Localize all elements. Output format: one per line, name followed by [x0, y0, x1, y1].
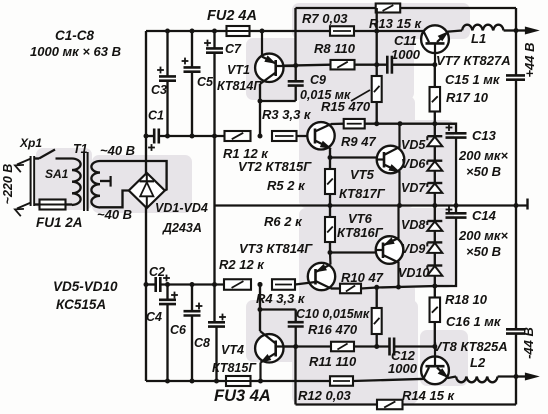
svg-text:VD6: VD6	[401, 157, 426, 171]
transistor VT4 KT815G	[255, 334, 283, 362]
svg-text:C1: C1	[148, 109, 164, 123]
svg-text:R8 110: R8 110	[314, 41, 356, 56]
svg-text:VD10: VD10	[398, 266, 429, 280]
svg-text:~40 В: ~40 В	[100, 143, 135, 158]
resistor R10	[340, 284, 361, 294]
transistor VT3 KT814G	[308, 263, 335, 290]
svg-text:VT1: VT1	[227, 63, 250, 77]
wire x214.5 mid section (0V tie)	[213, 136, 215, 322]
wire VT2 collector to R9	[331, 123, 344, 126]
svg-text:C10 0,015мк: C10 0,015мк	[296, 307, 370, 321]
svg-text:VD9: VD9	[401, 242, 425, 256]
fuse FU3	[226, 376, 251, 386]
wire raw+ rail y31	[146, 30, 227, 32]
wire raw- rail y381 center	[251, 380, 331, 382]
capacitor C5 vertical x192	[191, 31, 193, 67]
svg-text:R18 10: R18 10	[445, 292, 488, 307]
svg-text:C16 1 мк: C16 1 мк	[446, 314, 502, 329]
svg-text:L2: L2	[470, 355, 486, 370]
transformer T1 primary winding	[72, 159, 81, 205]
resistor R4	[272, 279, 295, 290]
svg-text:C13: C13	[472, 128, 497, 143]
svg-text:1000 мк × 63 В: 1000 мк × 63 В	[30, 44, 121, 59]
transistor VT6 KT816G	[376, 236, 404, 264]
transistor VT8 KT825A	[421, 356, 449, 384]
fuse FU1	[34, 203, 39, 205]
wire top rail y8	[296, 7, 377, 9]
svg-text:Xp1: Xp1	[19, 136, 42, 150]
svg-text:1000: 1000	[391, 47, 421, 62]
svg-text:C11: C11	[394, 33, 417, 48]
svg-text:×50 В: ×50 В	[466, 164, 501, 179]
zener VD8	[427, 220, 442, 222]
wire -44 vertical x516	[515, 206, 517, 330]
svg-text:Д243А: Д243А	[162, 221, 202, 235]
wire rail287	[361, 286, 435, 289]
node VT1 base	[293, 63, 298, 68]
transistor VT7 KT827A	[421, 25, 449, 53]
junction dots rail284.5	[144, 282, 149, 287]
wire x214.5 below C8	[215, 327, 217, 381]
arrow +44V output	[516, 29, 528, 31]
svg-text:VD5-VD10: VD5-VD10	[53, 279, 118, 294]
wire x295.5 from rail8 to VT1 base node	[294, 8, 296, 66]
zener VD7	[427, 182, 442, 184]
capacitor C1 (series plates on 0V rail)	[153, 129, 156, 144]
zener VD10	[427, 264, 442, 266]
svg-text:~40 В: ~40 В	[97, 207, 132, 222]
junction dots rail136	[144, 134, 149, 139]
svg-text:C8: C8	[194, 336, 210, 350]
svg-text:L1: L1	[471, 31, 486, 46]
svg-text:VT3 КТ814Г: VT3 КТ814Г	[239, 241, 313, 256]
svg-text:~220 В: ~220 В	[1, 164, 15, 205]
wire R13 left drop to node31	[376, 8, 378, 31]
resistor R12	[330, 376, 353, 386]
wire bridge+ vertical x146 top	[145, 31, 147, 174]
svg-text:T1: T1	[73, 142, 88, 156]
svg-text:R6 2 к: R6 2 к	[264, 214, 303, 229]
svg-text:C7: C7	[225, 42, 242, 56]
wire x376.7 top segments	[376, 31, 378, 76]
svg-text:VT5: VT5	[350, 167, 375, 182]
svg-text:C2: C2	[149, 265, 165, 279]
wire C12 to VT8 base node	[394, 345, 435, 347]
wire rail381 to VT8 collector	[353, 379, 426, 381]
svg-text:×50 В: ×50 В	[466, 244, 501, 259]
inductor L1	[462, 25, 504, 31]
svg-text:C9: C9	[310, 73, 326, 87]
svg-text:VT4: VT4	[221, 343, 244, 357]
svg-text:R17 10: R17 10	[446, 90, 489, 105]
resistor R8	[331, 60, 355, 69]
resistor R9	[344, 119, 365, 129]
capacitor C4 vertical x167.5 bottom	[166, 285, 168, 300]
svg-text:VD8: VD8	[401, 218, 425, 232]
svg-text:VT7 КТ827А: VT7 КТ827А	[436, 53, 511, 68]
wire zener chain x434.8 top	[434, 124, 436, 206]
svg-text:1000: 1000	[388, 361, 418, 376]
capacitor C7 vertical x214.5	[213, 31, 215, 48]
wire raw- rail y381 left	[146, 380, 226, 382]
capacitor C13 branch	[435, 124, 456, 134]
resistor R14	[377, 400, 403, 410]
wire node309.5 horizontal	[260, 308, 296, 310]
wire 0V rail y136	[159, 135, 225, 137]
svg-text:FU3 4A: FU3 4A	[214, 387, 271, 405]
wire VT1 collector drop x260	[259, 84, 261, 136]
wire C11 to VT7 base node	[392, 64, 435, 66]
resistor R13	[376, 4, 401, 13]
wire rail123.7	[365, 123, 456, 125]
wire node101 horizontal	[260, 100, 296, 102]
svg-text:R10 47: R10 47	[341, 270, 384, 285]
svg-text:FU2 4A: FU2 4A	[207, 8, 257, 24]
svg-text:R15 470: R15 470	[321, 99, 371, 114]
wire L2 to -44 node	[498, 375, 516, 377]
capacitor C14 branch	[455, 206, 457, 214]
svg-text:VD5: VD5	[401, 138, 426, 152]
wire R3 to VT2 base	[297, 135, 316, 137]
svg-text:КС515А: КС515А	[56, 297, 106, 312]
wire 0V rail y284.5	[160, 283, 224, 285]
capacitor C11 series plates	[386, 56, 389, 74]
svg-text:C5: C5	[197, 75, 214, 89]
svg-text:-44 В: -44 В	[521, 327, 536, 359]
svg-text:R3 3,3 к: R3 3,3 к	[262, 107, 312, 122]
svg-text:R16 470: R16 470	[308, 322, 358, 337]
shading patches	[292, 3, 470, 39]
svg-text:SA1: SA1	[45, 167, 69, 181]
svg-text:C14: C14	[472, 208, 497, 223]
svg-text:VD1-VD4: VD1-VD4	[155, 201, 208, 215]
plug Xp1	[30, 156, 32, 206]
junction dots mid rail	[328, 203, 333, 208]
zener VD5	[427, 135, 442, 137]
resistor R11	[331, 342, 354, 352]
svg-text:200 мк×: 200 мк×	[458, 228, 509, 243]
svg-text:C6: C6	[170, 323, 187, 337]
resistor R3	[272, 131, 297, 141]
wire VT4 collector drop x260	[259, 285, 261, 332]
svg-text:VT2 КТ815Г: VT2 КТ815Г	[238, 159, 312, 174]
wire bridge- vertical x146 bottom	[145, 208, 147, 382]
capacitor C8 plates	[208, 321, 225, 324]
wire VT3 emitter node to VT6 base	[328, 250, 333, 255]
svg-text:C3: C3	[151, 83, 167, 97]
svg-text:R14 15 к: R14 15 к	[402, 388, 456, 403]
arrow -44V output	[516, 375, 528, 377]
wire VT3 collector to R10	[331, 287, 340, 289]
capacitor C12 series plates	[388, 338, 391, 356]
wire VT2 emitter node to R5 and VT5 base	[329, 148, 331, 158]
wire R11 to C12	[354, 345, 390, 347]
transistor VT5 KT817G	[377, 146, 405, 174]
capacitor C3 vertical x167.5	[166, 31, 168, 76]
bridge rectifier VD1-VD4 diamond	[129, 173, 165, 208]
transformer T1 secondary winding	[91, 161, 100, 207]
wire mid rail 0V y205.5	[215, 204, 528, 206]
resistor R2	[224, 279, 251, 290]
svg-text:+44 В: +44 В	[522, 42, 537, 77]
svg-text:КТ817Г: КТ817Г	[339, 186, 386, 201]
capacitor C9	[295, 66, 297, 82]
svg-text:VT6: VT6	[348, 211, 373, 226]
transistor VT2 KT815G	[307, 122, 334, 149]
node VT4 base	[293, 344, 298, 349]
resistor R5 vertical	[329, 158, 331, 170]
wire R8 to C11	[355, 64, 388, 66]
svg-text:R11 110: R11 110	[309, 354, 357, 369]
mid rail end bar	[526, 199, 528, 210]
wire 0V rail y136 left	[146, 135, 154, 137]
svg-text:VD7: VD7	[401, 181, 426, 195]
svg-text:R12 0,03: R12 0,03	[298, 388, 352, 403]
transistor VT1 KT814G	[255, 54, 283, 82]
svg-text:КТ816Г: КТ816Г	[337, 225, 384, 240]
inductor L2	[456, 377, 498, 383]
capacitor C15	[506, 74, 525, 77]
svg-text:R7 0,03: R7 0,03	[302, 11, 348, 26]
secondary center tap stub	[100, 180, 110, 182]
svg-text:R9 47: R9 47	[341, 134, 376, 149]
capacitor C10	[295, 310, 297, 323]
wire AC top: secondary top to bridge right vertex	[100, 161, 167, 191]
svg-text:VT8 КТ825А: VT8 КТ825А	[433, 339, 508, 354]
switch SA1	[34, 157, 39, 159]
resistor R7	[330, 26, 354, 36]
resistor R18 vertical	[434, 286, 436, 298]
resistor R17 vertical	[434, 65, 436, 87]
resistor R6 vertical	[329, 206, 331, 218]
wire x295.5 bottom from VT4 base node to rail404.5	[294, 347, 296, 405]
wire bottom rail y404.5	[296, 403, 378, 405]
wire 0V rail y284.5 left	[146, 283, 156, 285]
svg-text:R5 2 к: R5 2 к	[267, 178, 306, 193]
capacitor C6 vertical x192 bottom	[191, 285, 193, 312]
junction dots rail381	[165, 379, 170, 384]
wire zener chain x434.8 bottom	[434, 206, 436, 287]
svg-text:200 мк×: 200 мк×	[458, 148, 509, 163]
capacitor C2 (series plates on 0V rail bottom)	[154, 277, 157, 292]
svg-text:R4 3,3 к: R4 3,3 к	[256, 291, 306, 306]
svg-text:FU1 2A: FU1 2A	[36, 215, 83, 230]
resistor R16 vertical	[376, 287, 378, 308]
wire AC bottom: secondary bottom to bridge left vertex	[100, 191, 129, 208]
capacitor C16	[506, 328, 525, 331]
fuse FU2	[227, 26, 250, 36]
wire L1 to +44 node	[504, 29, 516, 31]
wire rail64.7 VT1 base to R8	[284, 65, 331, 66]
svg-text:КТ815Г: КТ815Г	[212, 361, 257, 375]
svg-text:C4: C4	[146, 310, 162, 324]
svg-text:C1-C8: C1-C8	[55, 28, 95, 43]
zener VD6	[427, 159, 442, 161]
resistor R15 vertical	[372, 76, 382, 102]
resistor R1	[225, 131, 251, 141]
wire VT4 base rail to R11	[284, 345, 331, 347]
transformer T1 core	[83, 152, 85, 211]
wire +44 vertical x516	[515, 8, 517, 75]
zener VD9	[427, 241, 442, 243]
junction dots rail31	[165, 29, 170, 34]
svg-text:КТ814Г: КТ814Г	[217, 79, 262, 93]
wire VT3 emitter to node252.5	[329, 253, 332, 265]
svg-text:R2 12 к: R2 12 к	[219, 257, 265, 272]
bridge inner diode	[146, 174, 148, 181]
svg-text:C15 1 мк: C15 1 мк	[445, 72, 501, 87]
